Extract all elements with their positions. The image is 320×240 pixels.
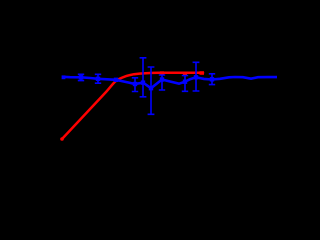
blue error bar x98 [95, 74, 101, 83]
blue error bar x185 [182, 76, 188, 92]
blue error bar x143 [140, 58, 147, 97]
red fit curve [62, 73, 203, 139]
red start dot [60, 137, 64, 141]
blue square marker x196 [194, 75, 198, 79]
blue square marker x116 [114, 78, 118, 82]
red tick x185 [183, 73, 187, 77]
blue square marker x212 [210, 77, 214, 81]
blue error bar x135 [132, 78, 138, 92]
blue square marker x143 [141, 80, 145, 84]
blue square marker x63 start [62, 75, 66, 79]
blue square marker x98 [96, 77, 100, 81]
red end nub [200, 71, 205, 75]
blue error bar x162 [159, 75, 165, 90]
red tick x162 [160, 71, 164, 75]
blue error bar x196 [193, 62, 200, 91]
blue square marker x185 [183, 80, 187, 84]
blue square marker x162 [160, 77, 164, 81]
blue data polyline [63, 77, 277, 88]
blue error bar x81 [78, 74, 84, 80]
blue square marker x151 [149, 86, 153, 90]
blue square marker x81 [79, 75, 83, 79]
blue error bar x151 [148, 67, 155, 114]
blue square marker x135 [133, 82, 137, 86]
blue error bar x212 [209, 74, 215, 85]
